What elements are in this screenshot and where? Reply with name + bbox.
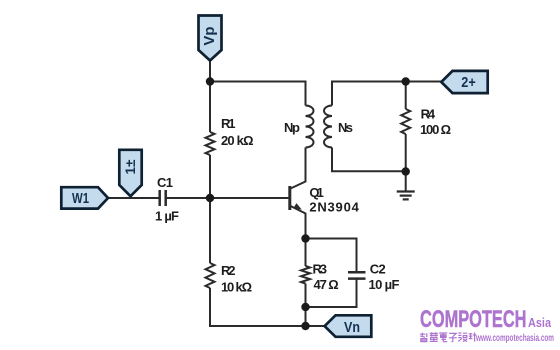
svg-text:Q1: Q1 <box>309 185 324 200</box>
svg-text:100 Ω: 100 Ω <box>420 122 451 137</box>
svg-text:1±: 1± <box>123 159 138 175</box>
svg-text:www.compotechasia.com: www.compotechasia.com <box>475 332 554 344</box>
svg-text:Asia: Asia <box>528 315 552 330</box>
svg-text:R3: R3 <box>313 262 328 277</box>
svg-text:C2: C2 <box>370 262 386 277</box>
svg-text:2+: 2+ <box>461 74 476 91</box>
svg-text:COMPOTECH: COMPOTECH <box>420 306 527 333</box>
svg-text:Ns: Ns <box>338 120 353 135</box>
svg-text:2N3904: 2N3904 <box>309 199 359 214</box>
svg-text:C1: C1 <box>157 175 173 190</box>
svg-text:1 µF: 1 µF <box>155 209 179 224</box>
svg-text:R4: R4 <box>421 107 436 122</box>
svg-text:47 Ω: 47 Ω <box>314 277 339 292</box>
svg-text:10 µF: 10 µF <box>369 277 400 292</box>
svg-text:R2: R2 <box>221 263 236 278</box>
svg-text:Vp: Vp <box>201 26 218 45</box>
svg-text:20 kΩ: 20 kΩ <box>221 133 254 148</box>
svg-text:Np: Np <box>284 120 300 135</box>
svg-text:10 kΩ: 10 kΩ <box>221 280 252 295</box>
svg-text:W1: W1 <box>72 190 89 207</box>
svg-text:Vn: Vn <box>344 319 360 336</box>
svg-text:R1: R1 <box>221 116 236 131</box>
